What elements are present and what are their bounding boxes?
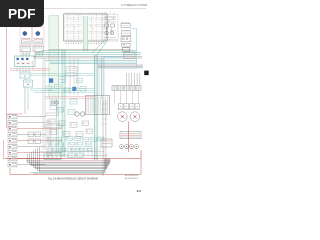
wire bus green bbox=[41, 50, 136, 52]
right-center tick marks bbox=[102, 104, 108, 124]
center clutter row 1 bbox=[46, 77, 86, 115]
pump stack label blur bbox=[121, 21, 130, 23]
wire vertical drops center bbox=[43, 58, 104, 150]
wire swing box risers bbox=[105, 12, 107, 15]
wire center joint drops bbox=[17, 67, 29, 73]
svg-text:ACCESSORY-1: ACCESSORY-1 bbox=[125, 174, 138, 177]
pilot shuttle boxes bbox=[28, 132, 41, 144]
swing motor circle 2 bbox=[110, 31, 114, 35]
center joint block bbox=[15, 56, 36, 67]
wire bus gray 1 bbox=[49, 48, 131, 50]
wire bus teal 2 bbox=[35, 54, 141, 56]
travel motor M1 enclosure bbox=[20, 27, 32, 46]
wire pilot supply extension bbox=[5, 114, 7, 127]
wire pink pair horizontal bbox=[10, 68, 52, 70]
wire crimson return 2 bbox=[26, 160, 110, 162]
wire bus gray right 2 bbox=[98, 66, 143, 68]
main pump circle A bbox=[75, 112, 79, 116]
swing motor blue square 1 bbox=[49, 78, 53, 82]
svg-text:PDF: PDF bbox=[8, 7, 36, 22]
cylinder block small bbox=[101, 139, 112, 147]
center joint port a bbox=[17, 58, 19, 60]
wire teal mid 2 bbox=[30, 90, 94, 92]
wire tank return nest bbox=[28, 147, 111, 172]
wire red return main bbox=[4, 157, 142, 159]
pilot pump box 1 bbox=[121, 24, 130, 28]
solenoid valve row bbox=[112, 86, 141, 91]
wire diagonal teal 1 bbox=[92, 41, 104, 53]
swing motor unit enclosure bbox=[102, 15, 118, 41]
wire teal band B fill bbox=[62, 50, 65, 157]
wire pilot supply left vertical bbox=[5, 27, 7, 114]
wire teal band D edges bbox=[94, 55, 96, 160]
MCV top pilot ticks bbox=[66, 12, 105, 14]
small valve box left-center bbox=[50, 106, 57, 110]
center joint port b bbox=[21, 58, 23, 60]
shuttle valve block V2 bbox=[24, 80, 33, 87]
wire bus gray 2 bbox=[33, 56, 142, 58]
wire teal upper mid 2 bbox=[30, 74, 94, 76]
swing unit label blur bbox=[104, 39, 117, 41]
main pump circle B bbox=[80, 112, 84, 116]
center clutter row 2 bbox=[48, 119, 93, 136]
wire red return drop bbox=[140, 150, 142, 158]
svg-text:3. HYDRAULIC SYSTEM: 3. HYDRAULIC SYSTEM bbox=[121, 4, 147, 7]
oil cooler circle bbox=[118, 112, 128, 122]
manifold hatch box bbox=[86, 96, 110, 115]
wire solenoid drops bbox=[115, 91, 139, 104]
pump pilot block bbox=[124, 52, 135, 59]
swing motor blue square 2 bbox=[72, 87, 76, 91]
wire light blue pair bbox=[102, 55, 125, 57]
MCV center green band edges bbox=[82, 16, 84, 51]
check valve block V1 bbox=[20, 72, 30, 78]
hydraulic tank bbox=[44, 153, 61, 159]
travel motor M1 bbox=[23, 31, 27, 35]
wire pilot stack outputs bbox=[17, 117, 62, 165]
wire bus gray 3 bbox=[33, 57, 142, 59]
wire cooler red drop bbox=[128, 122, 130, 153]
swing motor internals bbox=[104, 17, 116, 31]
pump valve box bbox=[122, 43, 130, 47]
wire left bundle verticals bbox=[47, 120, 51, 158]
wire tank teal line bbox=[30, 171, 106, 173]
breather circles row bbox=[120, 145, 139, 149]
wire solenoid feed verticals bbox=[126, 73, 140, 86]
travel brake valve row bbox=[20, 47, 31, 52]
wire teal band D fill bbox=[95, 55, 97, 160]
suction strainer marks bbox=[68, 153, 83, 158]
wire green ribbon right bbox=[58, 16, 60, 99]
MCV center green band fill bbox=[83, 16, 88, 51]
wire left pink rise bbox=[3, 140, 5, 158]
wire bus gray right 1 bbox=[98, 64, 143, 66]
PDF badge bbox=[0, 0, 44, 27]
wire red return left hook bbox=[9, 168, 11, 174]
wire pink mid pair bbox=[45, 96, 94, 98]
center joint drain dots bbox=[17, 63, 18, 64]
svg-text:3-5: 3-5 bbox=[137, 189, 142, 193]
MCV inner border bbox=[65, 15, 107, 40]
travel motor M1 valve block bbox=[22, 39, 31, 45]
header rule bbox=[4, 8, 146, 10]
main control valve MCV body bbox=[64, 14, 108, 41]
label strip above coolers bbox=[118, 108, 139, 110]
wire teal mid 1 bbox=[30, 88, 94, 90]
swing unit bottom lines bbox=[104, 37, 116, 39]
wire travel pilot drops bbox=[23, 52, 42, 57]
gear pump circles box bbox=[121, 36, 131, 41]
wire teal band B edges bbox=[61, 50, 63, 157]
wire bus teal 3 bbox=[45, 59, 137, 61]
wire blue case drain loop bbox=[103, 28, 137, 68]
wire bus gray right 3 bbox=[98, 67, 143, 69]
valve manifold block lower right bbox=[120, 132, 141, 139]
return filter circle bbox=[130, 112, 140, 122]
wire pink vertical bbox=[32, 60, 34, 70]
svg-text:ACCESSORY-2: ACCESSORY-2 bbox=[125, 177, 138, 180]
svg-text:Fig. 3-5 MAIN HYDRAULIC CIRCU: Fig. 3-5 MAIN HYDRAULIC CIRCUIT DIAGRAM bbox=[48, 177, 97, 180]
page background bbox=[0, 0, 149, 198]
wire pre-tank gray 2 bbox=[38, 155, 108, 157]
accumulator row bbox=[119, 104, 140, 110]
wire bus teal 5 bbox=[50, 63, 137, 65]
MCV bottom port ticks bbox=[66, 41, 105, 44]
remote control valve stack bbox=[8, 115, 17, 167]
node junction marker black square bbox=[144, 71, 149, 76]
wire teal mid 3 bbox=[34, 92, 94, 94]
wire clutter drops to tank bbox=[48, 147, 104, 158]
travel motor M2 valve block bbox=[34, 39, 43, 45]
strip box left-center bbox=[46, 113, 58, 116]
wire bus teal 1 bbox=[35, 52, 141, 54]
pump lower box bbox=[123, 48, 130, 52]
pilot pump box 2 bbox=[122, 30, 130, 35]
wire bus light blue mid bbox=[50, 61, 137, 63]
travel motor M2 enclosure bbox=[33, 27, 45, 46]
center joint ticks bbox=[17, 62, 32, 65]
gear pump ellipse pair bbox=[51, 101, 55, 104]
wire pilot supply elbow bbox=[6, 113, 22, 115]
wire vertical pair right-center bbox=[102, 100, 104, 176]
wire teal pair left bbox=[55, 99, 57, 153]
wire tank bottom line bbox=[33, 173, 104, 175]
wire V1-V2 links bbox=[24, 78, 26, 80]
MCV spool sections bbox=[66, 15, 105, 40]
center joint port c bbox=[26, 58, 28, 60]
wire red return right link bbox=[140, 158, 142, 174]
wire green ribbon top bbox=[49, 15, 59, 17]
wire diagonal teal 2 bbox=[97, 41, 107, 55]
pilot filter box bbox=[66, 67, 77, 77]
swing motor circle 1 bbox=[105, 31, 109, 35]
pump label strip bbox=[44, 125, 62, 128]
wire pre-tank gray 1 bbox=[40, 151, 104, 153]
wire green ribbon fill bbox=[49, 16, 58, 99]
wire red return bottom bbox=[10, 173, 141, 175]
travel motor M2 bbox=[36, 31, 40, 35]
wire light blue verticals bbox=[101, 58, 103, 99]
travel counterbalance ticks bbox=[21, 53, 43, 56]
wire green ribbon left bbox=[48, 16, 50, 99]
center clutter row 3 bbox=[47, 137, 104, 152]
wire teal upper mid 1 bbox=[30, 73, 94, 75]
